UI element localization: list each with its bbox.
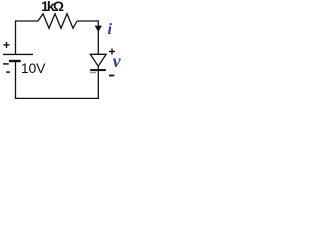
resistor 1kΩ xyxy=(38,14,77,29)
battery plus label xyxy=(4,42,10,48)
battery 10V positive plate xyxy=(3,53,33,55)
current arrow i xyxy=(95,26,102,33)
diode plus label xyxy=(109,49,115,55)
wire top-left xyxy=(16,20,39,22)
wire right upper xyxy=(97,20,99,54)
value label 1kΩ xyxy=(41,0,62,14)
wire left lower xyxy=(15,62,17,99)
current label i xyxy=(108,21,112,39)
diode minus label xyxy=(109,75,114,77)
value label 10V xyxy=(21,60,45,76)
small mark under battery xyxy=(6,71,10,73)
diode xyxy=(90,54,106,70)
voltage label v xyxy=(113,51,121,72)
battery 10V negative plate xyxy=(9,60,21,62)
smudge under diode bar xyxy=(90,72,96,73)
wire bottom xyxy=(15,97,99,99)
battery minus label xyxy=(3,63,9,65)
wire left upper xyxy=(15,20,17,54)
wire right lower xyxy=(97,66,99,99)
wire top-right xyxy=(77,20,99,22)
